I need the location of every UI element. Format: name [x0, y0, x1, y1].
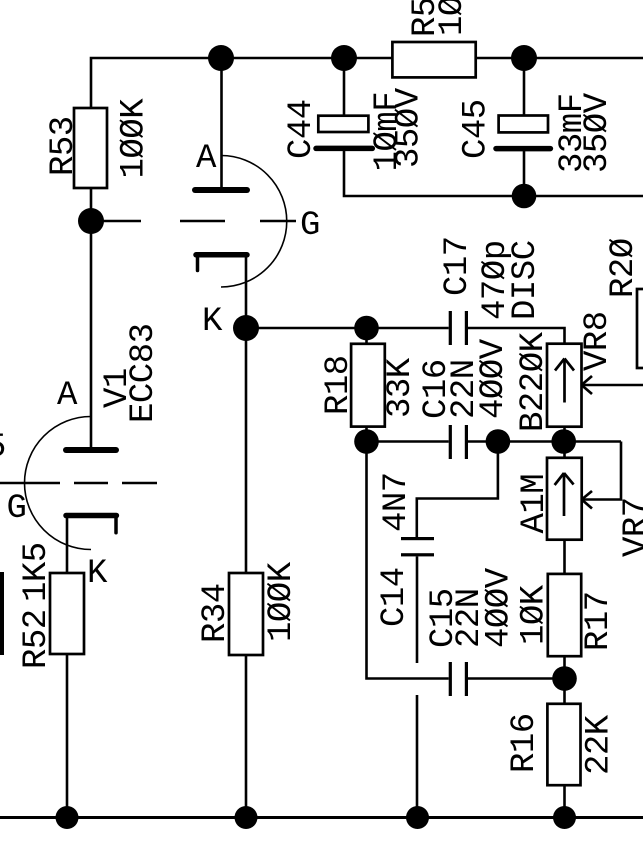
triode V1b grid dashed line	[0, 482, 157, 485]
capacitor C17 plates	[449, 311, 468, 345]
capacitor C15 plates	[449, 662, 468, 696]
resistor R34	[229, 573, 263, 655]
wire R18 leads	[365, 328, 368, 442]
wire VR8-VR7-R17-R16 chain	[563, 426, 566, 818]
wire V1b cathode lead to R52	[66, 518, 69, 573]
svg-text:35ØV: 35ØV	[579, 92, 617, 173]
svg-text:VR8: VR8	[579, 311, 617, 371]
triode V1b envelope arc	[25, 417, 92, 550]
resistor R17	[548, 574, 581, 656]
svg-text:C17: C17	[439, 236, 477, 296]
wire C44 lead top	[343, 58, 346, 116]
node R17 / C15 / R16	[552, 666, 577, 691]
resistor R52	[50, 573, 84, 654]
resistor R5x (top, clipped)	[392, 42, 475, 77]
node R53 / V1b plate / grid	[78, 208, 104, 234]
triode V1a anode bar	[195, 187, 247, 193]
capacitor C14 plates	[401, 537, 434, 556]
wire VR7 wiper feedback	[583, 442, 621, 500]
node C45 / bus	[511, 45, 537, 71]
node C14 top	[486, 429, 511, 454]
node V1a cathode	[233, 315, 259, 341]
svg-text:B22ØK: B22ØK	[515, 331, 553, 432]
svg-text:35ØV: 35ØV	[391, 87, 429, 168]
svg-text:R17: R17	[580, 591, 618, 651]
wire C45 lead top	[523, 58, 526, 116]
potentiometer VR7	[547, 458, 592, 540]
svg-text:ECC83: ECC83	[125, 323, 163, 423]
svg-text:K: K	[87, 555, 108, 593]
svg-text:R53: R53	[45, 116, 83, 176]
wire V1a cathode lead	[245, 257, 248, 328]
svg-text:4ØØV: 4ØØV	[481, 567, 519, 648]
resistor R53	[74, 108, 107, 188]
svg-text:VR7: VR7	[618, 497, 643, 557]
triode V1b anode bar	[66, 447, 116, 453]
svg-text:1ØØK: 1ØØK	[263, 561, 301, 642]
wire C16 to VR7 wiper corner	[466, 440, 621, 443]
wire C14 top lead	[417, 442, 498, 538]
svg-text:R52: R52	[18, 609, 56, 669]
wire V1b plate lead	[90, 221, 93, 447]
svg-text:22K: 22K	[581, 714, 619, 775]
triode V1a cathode bar	[196, 255, 247, 271]
svg-text:R18: R18	[320, 355, 358, 415]
wire C14 bottom lead upper part	[416, 557, 419, 664]
svg-text:A: A	[196, 140, 217, 178]
svg-text:1ØK: 1ØK	[516, 584, 554, 645]
triode V1b cathode bar	[66, 516, 116, 533]
svg-text:R16: R16	[506, 713, 544, 773]
wire C15 right to node	[466, 677, 565, 680]
capacitor C16 plates	[449, 425, 468, 459]
resistor R18	[351, 344, 385, 427]
wire VR8 wiper line	[583, 384, 643, 387]
wire V1a plate lead	[220, 58, 223, 187]
wire R53 lower lead	[90, 188, 93, 221]
node R16 / ground	[553, 806, 576, 829]
wire C17 to VR8 top	[466, 328, 565, 344]
svg-text:5: 5	[0, 429, 5, 467]
node C45 / filter rail	[512, 184, 537, 209]
capacitor C45 (electrolytic)	[496, 116, 550, 149]
svg-text:33K: 33K	[382, 357, 420, 418]
node R34 / ground	[235, 806, 258, 829]
potentiometer VR8	[547, 344, 592, 427]
svg-text:R34: R34	[197, 583, 235, 643]
node V1a plate / bus	[208, 45, 234, 71]
triode V1a grid dashed line	[91, 220, 296, 223]
resistor partial at left edge	[0, 572, 4, 655]
node VR8 bottom	[551, 429, 576, 454]
svg-text:1K5: 1K5	[18, 542, 56, 602]
wire ground bus	[0, 816, 643, 819]
node C44 / bus	[331, 45, 357, 71]
capacitor C44 (electrolytic)	[316, 116, 372, 149]
node R52 / ground	[56, 806, 79, 829]
svg-text:R2Ø: R2Ø	[605, 238, 643, 298]
svg-text:DISC: DISC	[507, 240, 545, 320]
svg-text:K: K	[202, 303, 223, 341]
wire node K row to C17	[246, 327, 449, 330]
wire C45 lead bottom	[523, 151, 526, 196]
svg-text:C45: C45	[458, 99, 496, 159]
node R18 bottom	[354, 429, 379, 454]
svg-text:C14: C14	[376, 567, 414, 627]
wire top HT bus	[91, 58, 643, 108]
svg-text:1ØK: 1ØK	[434, 0, 472, 36]
svg-text:4N7: 4N7	[378, 472, 416, 532]
wire C15 left branch	[367, 442, 449, 679]
node C14 / ground	[406, 806, 429, 829]
wire R52 to ground rail	[66, 654, 69, 818]
svg-text:C44: C44	[283, 99, 321, 159]
resistor R20 (clipped right)	[637, 289, 643, 368]
node R18 top	[354, 316, 379, 341]
triode V1a envelope arc	[221, 156, 287, 288]
wire mid row to C16	[367, 440, 449, 443]
wire C14 bottom lead to ground rail	[416, 695, 419, 818]
svg-text:1ØØK: 1ØØK	[116, 98, 154, 179]
svg-text:4ØØV: 4ØØV	[475, 338, 513, 419]
svg-text:G: G	[7, 490, 26, 528]
wire filter ground rail	[344, 151, 643, 196]
svg-text:A: A	[57, 377, 78, 415]
svg-text:G: G	[300, 207, 319, 245]
wire R34 leads	[245, 328, 248, 818]
svg-text:A1M: A1M	[516, 474, 554, 534]
resistor R16	[547, 704, 580, 785]
